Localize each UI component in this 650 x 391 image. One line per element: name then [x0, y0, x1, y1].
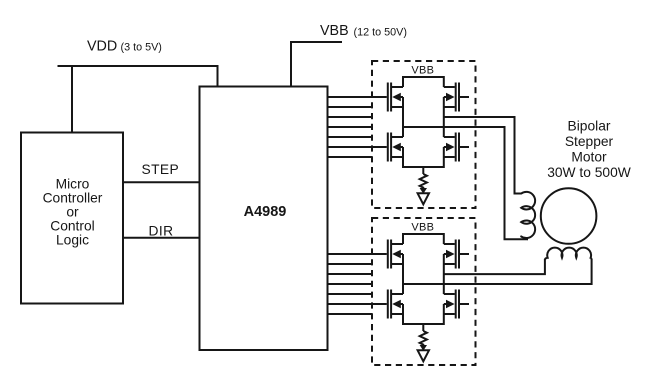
wire VBB top rail bridge 2 — [403, 233, 444, 235]
wire sense tap bridge 2 — [422, 324, 424, 331]
wire right bus bridge 2 — [443, 233, 445, 325]
wire VBB drop to A4989 — [290, 41, 292, 87]
block Micro Controller or Control Logic — [21, 133, 123, 304]
motor M1 (stepper motor body) — [541, 188, 597, 244]
svg-text:30W to 500W: 30W to 500W — [547, 165, 631, 180]
wire STEP — [123, 181, 200, 183]
wire VDD drop to controller — [71, 65, 73, 133]
transistor Q1B high-side (N-MOSFET, right side) — [444, 83, 469, 112]
svg-text:Stepper: Stepper — [565, 134, 614, 149]
node VBB label — [320, 23, 407, 39]
svg-text:VBB: VBB — [411, 65, 434, 77]
wire bridge B connection 7 — [328, 313, 373, 315]
resistor sense R2 — [420, 331, 427, 346]
svg-text:Control: Control — [50, 219, 94, 234]
wire bridge A connection 7 — [328, 156, 373, 158]
svg-text:STEP: STEP — [142, 162, 180, 177]
wire bridge1 output OUTB (middle rail) — [403, 127, 528, 239]
wire bridge B connection 4 — [328, 283, 373, 285]
wire bottom rail bridge 2 — [403, 323, 444, 325]
svg-text:VBB: VBB — [320, 23, 349, 39]
transistor Q2A high-side (N-MOSFET, left side) — [387, 240, 403, 269]
arrowhead to ground bridge 1 — [420, 188, 427, 194]
wire DIR — [123, 237, 200, 239]
wire bridge B connection 3 — [328, 273, 373, 275]
transistor Q2B high-side (N-MOSFET, right side) — [444, 240, 469, 269]
IC U1 A4989 — [200, 87, 328, 351]
wire right bus bridge 1 — [443, 76, 445, 168]
svg-text:VDD: VDD — [87, 38, 117, 54]
transistor Q2D low-side (N-MOSFET, right side) — [444, 290, 469, 319]
dashed box: power bridge 1 — [372, 61, 476, 208]
wire VBB rail — [291, 41, 342, 43]
transistor Q1D low-side (N-MOSFET, right side) — [444, 133, 469, 162]
svg-text:Controller: Controller — [43, 191, 103, 206]
transistor Q1C low-side (N-MOSFET, left side) — [387, 133, 403, 162]
arrowhead to ground bridge 2 — [420, 345, 427, 351]
resistor sense R1 — [420, 174, 427, 189]
wire left bus bridge 2 — [402, 233, 404, 325]
wire bridge A connection 5 — [328, 136, 373, 138]
wire bridge A connection 3 — [328, 116, 373, 118]
svg-text:Logic: Logic — [56, 233, 89, 248]
wire left bus bridge 1 — [402, 76, 404, 168]
wire VDD rail — [58, 65, 218, 67]
wire bridge1 output OUTA (upper) — [444, 117, 515, 195]
svg-text:Bipolar: Bipolar — [568, 119, 611, 134]
wire bridge A connection 2 — [328, 106, 373, 108]
svg-text:A4989: A4989 — [244, 204, 287, 220]
transistor Q2C low-side (N-MOSFET, left side) — [387, 290, 403, 319]
svg-text:VBB: VBB — [411, 222, 434, 234]
label Bipolar Stepper Motor 30W to 500W — [547, 119, 631, 181]
ground symbol bridge 2 — [418, 350, 429, 361]
wire bridge A connection 4 — [328, 126, 373, 128]
svg-text:DIR: DIR — [149, 224, 174, 239]
inductor winding phase B (horizontal coil) — [545, 248, 592, 260]
wire gate drive A1 (to FET gate) — [328, 96, 387, 98]
svg-text:Motor: Motor — [571, 150, 607, 165]
inductor winding phase A (vertical coil) — [515, 192, 536, 239]
dashed box: power bridge 2 — [372, 218, 476, 365]
ground symbol bridge 1 — [418, 193, 429, 204]
node VDD label — [87, 38, 162, 54]
transistor Q1A high-side (N-MOSFET, left side) — [387, 83, 403, 112]
wire VBB top rail bridge 1 — [403, 76, 444, 78]
wire VDD drop to A4989 — [217, 65, 219, 87]
svg-text:(3 to 5V): (3 to 5V) — [121, 42, 162, 54]
wire bridge B connection 2 — [328, 263, 373, 265]
wire gate drive B6 (to FET gate) — [328, 303, 387, 305]
wire bridge2 output OUTC (upper) — [444, 259, 545, 274]
wire gate drive A6 (to FET gate) — [328, 146, 387, 148]
svg-text:or: or — [66, 205, 79, 220]
svg-text:Micro: Micro — [56, 177, 90, 192]
wire bottom rail bridge 1 — [403, 166, 444, 168]
wire bridge2 output OUTD (middle rail) — [403, 259, 592, 284]
wire gate drive B1 (to FET gate) — [328, 253, 387, 255]
wire sense tap bridge 1 — [422, 167, 424, 174]
wire bridge B connection 5 — [328, 293, 373, 295]
svg-text:(12 to 50V): (12 to 50V) — [354, 26, 407, 38]
